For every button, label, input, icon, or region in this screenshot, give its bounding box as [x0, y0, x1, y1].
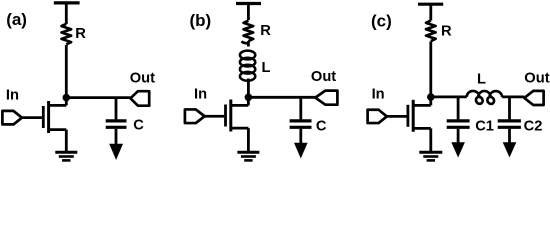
svg-text:C1: C1	[475, 119, 494, 135]
svg-text:C2: C2	[524, 118, 543, 134]
svg-text:L: L	[477, 72, 486, 88]
svg-text:Out: Out	[524, 70, 549, 86]
svg-text:(a): (a)	[6, 10, 27, 29]
svg-text:Out: Out	[130, 70, 155, 86]
svg-text:In: In	[372, 86, 385, 102]
svg-text:(c): (c)	[371, 12, 392, 31]
svg-text:L: L	[262, 60, 271, 76]
svg-text:In: In	[194, 86, 207, 102]
svg-text:R: R	[260, 23, 271, 39]
svg-text:R: R	[75, 26, 86, 42]
svg-text:(b): (b)	[190, 11, 212, 30]
svg-text:R: R	[441, 23, 452, 39]
svg-text:Out: Out	[311, 69, 336, 85]
svg-text:C: C	[316, 118, 327, 134]
svg-text:C: C	[133, 117, 144, 133]
svg-text:In: In	[6, 87, 19, 103]
